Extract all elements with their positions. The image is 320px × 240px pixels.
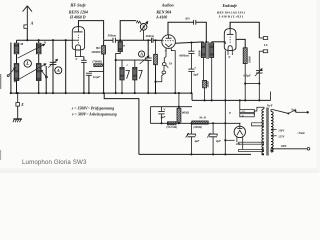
primary tap 110V (271, 129, 273, 131)
wire grid return (65, 40, 67, 93)
svg-text:LS: LS (263, 43, 268, 47)
wire V2 filament right (171, 48, 175, 93)
wire regen riser (120, 21, 136, 41)
tube V3 RES164 envelope (224, 29, 236, 51)
jack Tb2 (162, 71, 166, 74)
tube V2 cathode (165, 44, 172, 47)
svg-text:A: A (139, 52, 143, 57)
variometer arrow lower (14, 64, 46, 82)
primary tap 125V (271, 135, 273, 137)
wire tuning cap A1 (52, 40, 54, 93)
barretter R1 (240, 109, 255, 112)
svg-text:RENS 1204: RENS 1204 (69, 11, 88, 15)
transformer NeT core (266, 108, 268, 156)
wire secondary bottom (211, 58, 213, 101)
B- rail wire (192, 99, 271, 101)
wire V2 top coupling (168, 22, 194, 34)
terminal LS1 (259, 37, 263, 39)
wire (38, 40, 40, 43)
coil L2b (36, 64, 41, 81)
wire bus to bottom rail (104, 93, 139, 154)
coil L3 secondary (118, 42, 122, 52)
wire barretter ties (239, 113, 241, 114)
wire supply vertical (224, 100, 226, 154)
tube V1 anode (74, 31, 83, 33)
wire box top (150, 106, 192, 108)
rectifier anode (239, 123, 241, 128)
wire coil L3 bottom jog (116, 52, 121, 94)
wire box left (149, 107, 151, 124)
resistor 200000 HD (102, 46, 106, 54)
wire (16, 54, 18, 64)
wire cathode bias (236, 39, 245, 47)
svg-text:100V: 100V (281, 144, 288, 148)
transformer Tr secondary (210, 43, 214, 58)
svg-text:4μF: 4μF (159, 115, 165, 119)
svg-text:Lumophon Gloria SW3: Lumophon Gloria SW3 (22, 159, 87, 166)
tube V3 anode (227, 33, 234, 35)
electrolytic C1 4uF (190, 122, 192, 124)
antenna A (23, 6, 32, 25)
wire V2 cathode down (164, 48, 166, 63)
variable capacitor A1 (50, 62, 57, 64)
wire tuning cap A2 (147, 40, 149, 58)
capacitor cathode (81, 60, 87, 62)
svg-text:L 416 D ( L 413 ): L 416 D ( L 413 ) (218, 15, 244, 19)
svg-text:200000: 200000 (90, 50, 101, 54)
barretter R2 (240, 114, 255, 117)
label L circled (24, 60, 31, 67)
wire (16, 81, 18, 94)
svg-text:s = 1500V~ Prüfspannung: s = 1500V~ Prüfspannung (71, 107, 114, 111)
wire V2 anode (175, 42, 203, 43)
trim symbol (136, 21, 140, 23)
capacitor KD 500 (194, 20, 196, 25)
wire stub (270, 92, 272, 101)
svg-text:L: L (25, 62, 29, 67)
wire bus right corner (191, 93, 193, 100)
wire secondary top to V3 grid (212, 41, 226, 43)
coil L1a (14, 43, 19, 54)
tube V1 RENS1204 envelope (72, 27, 84, 50)
svg-text:4μF: 4μF (193, 139, 199, 143)
tube V1 grid dashed (77, 35, 79, 44)
svg-text:600Ω: 600Ω (182, 110, 190, 114)
wire jack return (156, 74, 164, 82)
coil L2a variometer (36, 43, 41, 54)
wire filament pair 2 (239, 149, 264, 151)
potentiometer R circled (140, 22, 141, 25)
terminal mains 2 (307, 148, 310, 151)
tube V3 filament legs (227, 52, 229, 55)
tube V2 anode (166, 37, 172, 39)
wire primary top to switch (271, 110, 273, 112)
variometer arrow L5 (138, 70, 142, 78)
choke NeD (192, 121, 208, 124)
capacitor 500cm (104, 39, 113, 41)
wire horizontal (116, 59, 149, 61)
svg-text:n: n (123, 43, 125, 47)
wire (16, 40, 18, 43)
wire cathode tie (245, 83, 259, 85)
capacitor 0,1uF (89, 70, 104, 72)
svg-text:500cm: 500cm (108, 33, 117, 37)
svg-text:20000: 20000 (198, 50, 201, 58)
wire (163, 66, 165, 71)
svg-text:(200Ω): (200Ω) (193, 125, 201, 129)
tube V1 cathode (75, 45, 80, 52)
wire (190, 71, 192, 93)
transformer Tr core (206, 42, 208, 60)
electrolytic C2 4uF (212, 122, 214, 124)
svg-text:HF-Stufe: HF-Stufe (69, 3, 86, 7)
svg-text:Audion: Audion (161, 3, 174, 7)
tube V1 filament legs (75, 52, 84, 57)
variable capacitor A2 arrow (140, 56, 149, 64)
transformer NeT primary winding (271, 112, 273, 153)
resistor 30000 (243, 48, 247, 64)
label A circled (55, 67, 62, 74)
svg-text:200cm: 200cm (145, 34, 155, 38)
svg-text:p: p (228, 110, 231, 114)
rectifier filament (237, 130, 243, 135)
svg-text:0,1μF: 0,1μF (93, 75, 100, 79)
resistor grid leak (155, 40, 157, 54)
label A circled 2 (139, 51, 145, 57)
svg-text:H 4060 D: H 4060 D (69, 15, 86, 19)
svg-text:6μF: 6μF (193, 73, 198, 77)
wire LS return (258, 51, 260, 100)
rectifier tube envelope (234, 126, 245, 137)
svg-text:Endstufe: Endstufe (222, 4, 238, 8)
capacitor 6000cm (190, 43, 192, 52)
svg-text:A: A (30, 21, 34, 26)
tube V2 grid dashed (162, 40, 174, 42)
bottom rail wire (139, 153, 251, 155)
resistor 600 ohm (178, 93, 180, 108)
ground symbol (17, 106, 19, 119)
svg-text:E: E (20, 103, 24, 107)
svg-text:30000: 30000 (249, 56, 252, 64)
wire (38, 81, 40, 94)
tube V3 grid dashed (229, 37, 231, 44)
svg-text:Ne D: Ne D (198, 115, 206, 119)
svg-text:6000cm: 6000cm (179, 54, 189, 58)
tube V3 cathode (228, 46, 232, 53)
svg-text:(70000): (70000) (92, 60, 102, 64)
terminal mains 1 (306, 111, 308, 113)
wire (204, 88, 206, 101)
wire grid bus RF (17, 39, 73, 41)
wire cathode to bus (83, 57, 85, 61)
svg-text:NeT: NeT (266, 104, 274, 108)
svg-text:A 4100: A 4100 (155, 15, 167, 19)
svg-text:10000: 10000 (207, 80, 210, 87)
svg-text:0,5μF: 0,5μF (243, 73, 250, 77)
rectifier filament leads (236, 137, 238, 143)
wire R to grid (143, 30, 145, 40)
capacitor 6uF (190, 53, 192, 69)
svg-text:A: A (56, 68, 60, 73)
coil L1b (14, 64, 19, 81)
wire V1 anode top (78, 21, 103, 40)
coil L5 reaction (133, 67, 137, 80)
svg-text:(512 kΩ): (512 kΩ) (166, 125, 177, 129)
earth terminal E (17, 93, 19, 102)
wire to barretter (239, 100, 241, 109)
terminal LS2 (263, 50, 267, 53)
transformer NeT secondary winding (262, 109, 264, 155)
wire antenna to grid wire (26, 28, 28, 40)
capacitor 4uF V (161, 107, 163, 112)
resistor (512k) (167, 122, 176, 125)
svg-text:125V: 125V (278, 135, 285, 139)
wire filament pair 1 (239, 142, 264, 144)
wire audion grid (120, 39, 151, 41)
jack Tb1 (162, 63, 166, 66)
tube V2 REN904 envelope (162, 35, 176, 49)
wire box bottom rail (150, 122, 240, 124)
svg-text:REN 904: REN 904 (156, 11, 171, 15)
switch S1 (10, 43, 12, 94)
tube V1 grid lead (72, 39, 78, 41)
switch S2 (45, 66, 47, 93)
wire (38, 54, 40, 64)
svg-text:4μF: 4μF (215, 139, 221, 143)
tube V3 grid lead riser (224, 42, 226, 44)
coil L4 (120, 67, 124, 80)
capacitor 200cm (152, 38, 154, 43)
secondary taps bracket (252, 123, 265, 126)
variometer arrow upper (18, 44, 45, 58)
svg-text:v = 380V~ Arbeitsspannung: v = 380V~ Arbeitsspannung (72, 113, 117, 117)
wire heater tie (225, 139, 234, 141)
svg-text:~Netz: ~Netz (297, 131, 306, 135)
wire V3 below to supply (224, 51, 226, 101)
svg-text:110V: 110V (278, 128, 285, 132)
variometer arrow L4 (126, 70, 130, 78)
resistor under primary (202, 58, 204, 81)
wire (244, 64, 246, 101)
capacitor 0,5uF (256, 71, 263, 73)
main bus wire (10, 92, 192, 94)
wire V3 anode to LS (230, 22, 259, 38)
